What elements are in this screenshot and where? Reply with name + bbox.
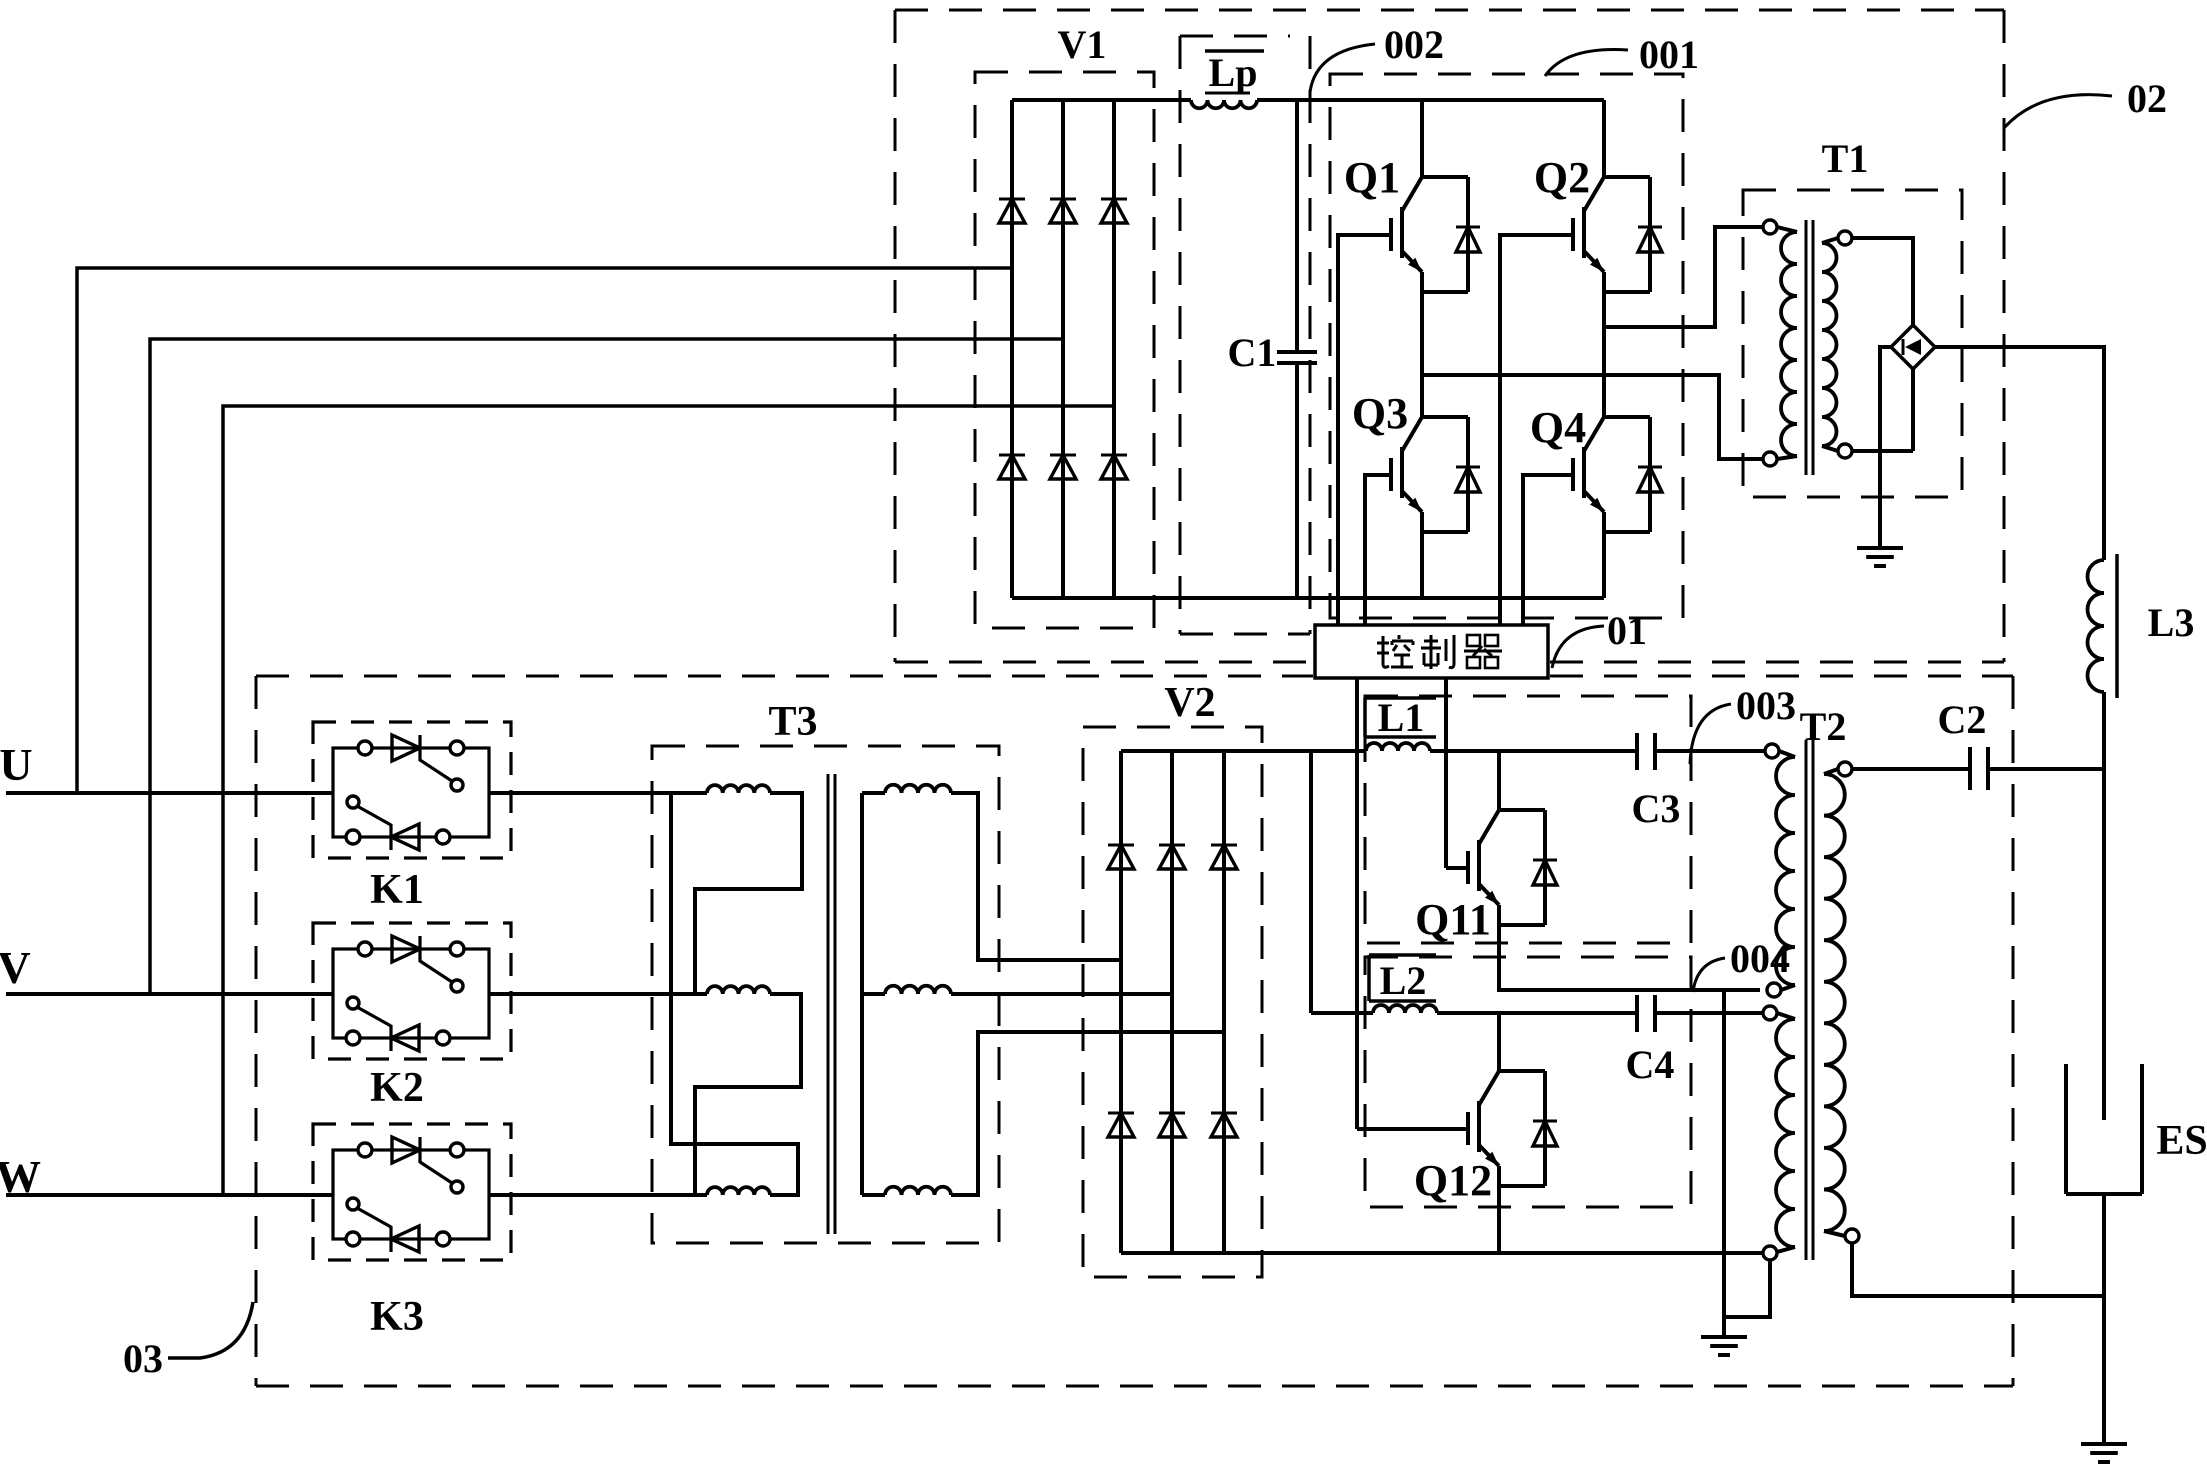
wire diamond bottom (1911, 369, 1915, 451)
transformer T2 secondary (1838, 762, 1852, 776)
svg-text:001: 001 (1639, 32, 1699, 77)
wire V2 column 2 (1170, 751, 1174, 1253)
dashed box 001 (inverter bridge) (1330, 74, 1683, 618)
inductor L3 (2088, 560, 2105, 692)
leader 004 (1693, 958, 1725, 992)
wire Q12 emitter to negative rail (1497, 1166, 1501, 1253)
wire V1 column 3 (1112, 100, 1116, 598)
transformer T3 primary coil 3 (707, 1187, 770, 1195)
dashed box 03 (grid-side unit) (256, 675, 1313, 678)
wire K3 to T3 (489, 1193, 707, 1197)
inductor L2 (1373, 1005, 1437, 1013)
transformer T3 primary coil 1 (707, 785, 770, 793)
wire V2 positive rail to L1 (1121, 749, 1366, 753)
diode V1 lower 2 (1050, 454, 1076, 457)
svg-text:T1: T1 (1822, 136, 1869, 181)
leader 002 (1310, 44, 1375, 92)
dashed box switch K1 (313, 722, 511, 858)
svg-text:K1: K1 (370, 867, 424, 913)
svg-text:Q2: Q2 (1534, 153, 1590, 202)
transformer T2 core (1805, 740, 1808, 1260)
switch K1 switch arm lower (347, 796, 359, 808)
transformer T2 upper primary (1765, 744, 1779, 758)
transformer T3 secondary coil 3 (862, 1193, 885, 1197)
svg-text:Q12: Q12 (1414, 1156, 1492, 1205)
ground T2 (1701, 1335, 1747, 1339)
wire T3 sec3 to V2 (951, 1032, 1224, 1195)
wire T3 secondary star rail (860, 793, 864, 1195)
wire T1 secondary bottom (1852, 449, 1913, 453)
svg-text:02: 02 (2127, 76, 2167, 121)
wire C2 to electrode column (1988, 767, 2104, 771)
switch K2 switch arm lower (347, 997, 359, 1009)
wire diamond right to L3 (1935, 347, 2104, 560)
transformer T3 core (827, 774, 830, 1234)
diode V1 upper 1 (999, 198, 1025, 201)
switch K1 thyristor reverse (346, 830, 360, 844)
switch K2 contact frame (333, 949, 489, 1038)
switch K2 thyristor forward (358, 942, 372, 956)
diode V1 lower 1 (999, 454, 1025, 457)
wire Q3 emitter (1420, 512, 1424, 598)
wire V1 column 1 (1010, 100, 1014, 598)
wire ground stem T1 (1878, 451, 1882, 547)
controller label 控制器 (1377, 642, 1389, 645)
svg-text:L2: L2 (1380, 958, 1427, 1003)
ground T1 (1857, 546, 1903, 550)
svg-text:01: 01 (1607, 608, 1647, 653)
switch K1 thyristor forward (358, 741, 372, 755)
svg-text:C4: C4 (1626, 1042, 1675, 1087)
dashed box V1 (rectifier) (975, 72, 1154, 628)
wire controller to Q12 gate (1355, 678, 1359, 1129)
wire top DC rail right (1257, 98, 1604, 102)
transistor Q2 (IGBT with freewheel diode) (1584, 177, 1604, 211)
switch K1 switch arm upper (420, 760, 452, 781)
wire bottom DC rail (1012, 596, 1604, 600)
svg-text:T3: T3 (768, 699, 817, 745)
transformer T3 primary coil 2 (707, 986, 770, 994)
switch K3 thyristor reverse (346, 1232, 360, 1246)
transformer T1 secondary winding (1838, 231, 1852, 245)
wire C4 to T2 (1655, 1011, 1763, 1015)
transformer T3 secondary coil 1 (862, 791, 885, 795)
svg-text:K2: K2 (370, 1065, 424, 1111)
diode V2 upper 3 (1211, 844, 1237, 847)
wire Q3 collector (1420, 375, 1424, 417)
capacitor C4 (1635, 995, 1639, 1032)
wire T1 secondary top to diamond (1852, 238, 1913, 325)
transformer T1 core (1805, 220, 1808, 475)
wire diamond left to ground node (1880, 347, 1891, 451)
svg-text:V1: V1 (1058, 22, 1107, 67)
switch K3 switch arm lower (347, 1198, 359, 1210)
wire T2 ground node (1722, 990, 1726, 1317)
leader 02 (2004, 95, 2112, 128)
svg-text:Lp: Lp (1209, 50, 1258, 95)
dashed box 002 (filter) (1180, 35, 1290, 38)
svg-text:Q3: Q3 (1352, 389, 1408, 438)
wire T3 delta return (671, 793, 798, 1195)
svg-text:K3: K3 (370, 1294, 424, 1340)
wire gate Q1 to controller (1336, 235, 1340, 625)
wire T2 lower bottom to ground (1724, 1260, 1770, 1317)
switch K3 contact frame (333, 1150, 489, 1239)
wire V input (6, 992, 333, 996)
transistor Q12 (IGBT with freewheel diode) (1479, 1071, 1499, 1105)
transistor Q4 (IGBT with freewheel diode) (1584, 417, 1604, 451)
wire U input (6, 791, 333, 795)
wire V1 column 2 (1061, 100, 1065, 598)
wire W feed to rectifier (223, 406, 1114, 1195)
svg-text:003: 003 (1736, 683, 1796, 728)
switch K2 thyristor reverse (346, 1031, 360, 1045)
label L1 bracket (1363, 698, 1367, 737)
dashed box V2 (1083, 727, 1262, 1277)
svg-text:Q1: Q1 (1344, 153, 1400, 202)
transistor Q11 (IGBT with freewheel diode) (1479, 810, 1499, 844)
wire Q1 emitter (1420, 272, 1424, 375)
transformer T2 lower primary (1763, 1006, 1777, 1020)
svg-text:002: 002 (1384, 22, 1444, 67)
switch K1 contact frame (333, 748, 489, 837)
svg-text:C1: C1 (1228, 330, 1277, 375)
wire U feed to rectifier (77, 268, 1012, 793)
wire Q12 collector (1497, 1013, 1501, 1071)
diode V2 upper 2 (1159, 844, 1185, 847)
capacitor C2 (1968, 747, 1972, 790)
electrolytic cell ES (2064, 1064, 2068, 1194)
leader 01 (1552, 626, 1604, 668)
wire V feed to rectifier (150, 339, 1063, 994)
wire bridge node B to T1 primary top (1604, 227, 1763, 327)
transformer T1 primary winding (1763, 220, 1777, 234)
svg-text:Q4: Q4 (1530, 403, 1586, 452)
wire T3 sec1 to V2 (951, 793, 1121, 960)
dashed box switch K3 (313, 1124, 511, 1260)
diode V2 lower 1 (1108, 1112, 1134, 1115)
diode V1 lower 3 (1101, 454, 1127, 457)
diode V1 upper 3 (1101, 198, 1127, 201)
current sensor diamond (1891, 325, 1935, 369)
diode V1 upper 2 (1050, 198, 1076, 201)
wire Q11 emitter to T2 mid (1499, 905, 1760, 990)
dashed box T1 (1743, 190, 1962, 497)
label L2 bracket (1367, 955, 1371, 1001)
wire T2 secondary top to C2 (1852, 767, 1970, 771)
transistor Q1 (IGBT with freewheel diode) (1402, 177, 1422, 211)
capacitor C3 (1635, 733, 1639, 770)
svg-text:V: V (0, 942, 31, 993)
inductor L1 (1366, 743, 1430, 751)
wire T3 delta link 1 (695, 793, 802, 994)
wire C3 to T2 (1655, 749, 1765, 753)
svg-text:L1: L1 (1378, 695, 1425, 740)
dashed box switch K2 (313, 923, 511, 1059)
transistor Q3 (IGBT with freewheel diode) (1402, 417, 1422, 451)
dashed box 003 (1365, 696, 1691, 943)
switch K3 switch arm upper (420, 1162, 452, 1183)
leader 03 (168, 1302, 253, 1358)
svg-text:C3: C3 (1632, 786, 1681, 831)
svg-text:03: 03 (123, 1336, 163, 1381)
wire bridge node A to T1 primary bottom (1422, 375, 1763, 459)
transformer T3 secondary coil 2 (862, 992, 885, 996)
svg-text:L3: L3 (2148, 600, 2195, 645)
wire ES bottom tail (2102, 1194, 2106, 1296)
wire L2 to C4 (1437, 1011, 1637, 1015)
leader 001 (1545, 50, 1628, 76)
wire controller to Q11 gate (1444, 678, 1448, 868)
wire K2 to T3 (489, 992, 707, 996)
wire V2 to L2 (1311, 1011, 1373, 1015)
wire gate Q3 to controller (1363, 475, 1367, 625)
wire Q2 collector stub (1602, 100, 1606, 177)
wire gate Q2 to controller (1498, 235, 1502, 625)
wire top DC rail (1012, 98, 1191, 102)
inductor Lp (1191, 100, 1257, 108)
leader 003 (1690, 704, 1731, 764)
switch K3 thyristor forward (358, 1143, 372, 1157)
switch K2 switch arm upper (420, 961, 452, 982)
diode V2 upper 1 (1108, 844, 1134, 847)
svg-text:V2: V2 (1164, 680, 1215, 726)
svg-text:ES: ES (2156, 1118, 2207, 1164)
controller box 01 (1315, 625, 1548, 678)
svg-text:U: U (0, 739, 33, 790)
wire V2 negative rail (1121, 1251, 1763, 1255)
dashed box 004 (1365, 957, 1691, 1207)
ground bottom right (2081, 1442, 2127, 1446)
wire T2 secondary bottom link (1852, 1243, 2104, 1296)
wire Q4 emitter (1602, 512, 1606, 598)
diode V2 lower 2 (1159, 1112, 1185, 1115)
dashed box T3 (652, 746, 999, 1243)
wire L1 to C3 (1430, 749, 1637, 753)
wire T3 sec2 to V2 (951, 992, 1172, 996)
wire L1 node to L2 node (1309, 751, 1313, 1013)
wire L3 to electrode (2102, 692, 2106, 1120)
svg-text:Q11: Q11 (1415, 895, 1491, 944)
wire T3 delta link 2 (695, 994, 801, 1195)
wire V2 column 3 (1222, 751, 1226, 1253)
wire Q2 emitter / Q4 collector (1602, 272, 1606, 417)
diode V2 lower 3 (1211, 1112, 1237, 1115)
wire V2 column 1 (1119, 751, 1123, 1253)
dashed box 02 (welding power source unit) (895, 9, 2004, 12)
wire W input (6, 1193, 333, 1197)
wire to bottom-right ground (2102, 1296, 2106, 1443)
svg-text:C2: C2 (1938, 697, 1987, 742)
wire Q1 collector stub (1420, 100, 1424, 177)
wire gate Q4 to controller (1521, 475, 1525, 625)
wire Q11 collector (1497, 751, 1501, 810)
capacitor C1 (1295, 100, 1299, 352)
wire ground stem T2 (1722, 1317, 1726, 1336)
wire K1 to T3 (489, 791, 707, 795)
